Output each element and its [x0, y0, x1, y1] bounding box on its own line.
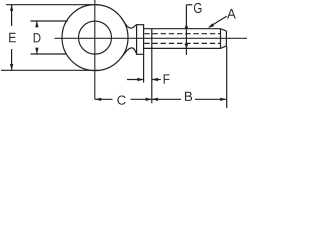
thread hidden line upper (dashed)	[144, 33, 220, 35]
dimension C arrow left	[95, 98, 101, 101]
dimension B arrow right	[220, 98, 226, 101]
G arrow down	[185, 44, 189, 49]
label D	[34, 33, 41, 42]
dimension E arrow down	[10, 64, 13, 70]
label E	[9, 33, 16, 43]
horizontal centerline	[55, 37, 248, 39]
dimension F arrow left-pointing	[152, 78, 158, 81]
tip chamfer bottom	[221, 46, 227, 49]
extension line below bolt tip	[226, 46, 228, 108]
dimension D line bottom segment	[36, 48, 38, 54]
A leader arrowhead	[208, 23, 214, 28]
neck bottom curve	[121, 48, 137, 58]
dimension D arrow up	[35, 21, 38, 27]
outer circle of eye	[62, 5, 128, 71]
chamfer line	[220, 29, 222, 49]
label B	[185, 92, 192, 101]
extension line below thread runout	[151, 48, 153, 103]
shank top edge	[144, 28, 221, 30]
shank bottom edge	[144, 47, 221, 49]
dimension F left arrow stem	[127, 79, 144, 81]
dimension E line bottom segment	[11, 49, 13, 70]
inner circle (hole)	[79, 21, 112, 54]
extension line below boss right edge	[143, 54, 145, 82]
dimension C line left segment	[95, 98, 113, 100]
dimension B line left segment	[152, 98, 181, 100]
D top extension line	[31, 20, 68, 22]
leader line for A	[210, 16, 227, 27]
dimension C arrow right	[146, 98, 152, 101]
E top extension line	[6, 4, 99, 6]
dimension D arrow down	[35, 48, 38, 54]
dimension D line top segment	[36, 21, 38, 27]
dimension G vertical line	[185, 5, 187, 55]
G arrow up	[185, 24, 189, 29]
label G	[194, 3, 202, 13]
boss/shoulder rectangle	[137, 25, 144, 55]
dimension B arrow left	[152, 98, 158, 101]
vertical centerline	[94, 0, 96, 100]
neck top curve	[121, 18, 137, 29]
E bottom extension line	[1, 69, 99, 71]
thread hidden line lower (dashed)	[144, 42, 220, 44]
dimension F right arrow stem	[152, 79, 161, 81]
label F	[164, 74, 170, 83]
label C	[117, 95, 125, 104]
dimension B line right segment	[195, 98, 226, 100]
label A	[227, 9, 236, 19]
tip chamfer top	[221, 29, 227, 31]
tip end cap	[225, 31, 227, 46]
dimension F arrow right-pointing	[137, 78, 143, 81]
dimension E arrow up	[10, 5, 13, 11]
D bottom extension line	[31, 53, 67, 55]
thread runout line	[151, 29, 153, 49]
dimension C line right segment	[131, 98, 152, 100]
dimension E line top segment	[11, 5, 13, 26]
G top tick to label	[186, 4, 192, 6]
